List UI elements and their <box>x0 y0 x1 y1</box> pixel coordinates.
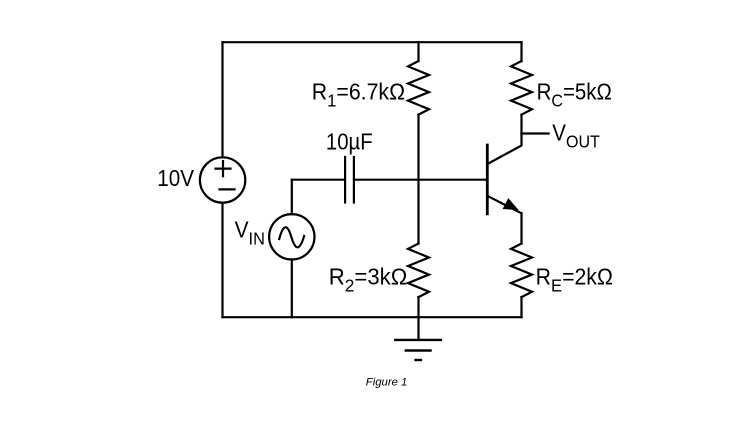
svg-text:10V: 10V <box>157 165 194 191</box>
wire left vertical lower <box>221 203 223 317</box>
resistor R1 <box>408 61 429 115</box>
svg-text:Figure 1: Figure 1 <box>366 377 408 389</box>
resistor R2 <box>408 244 429 298</box>
node VOUT stub <box>522 132 549 134</box>
svg-text:RE=2kΩ: RE=2kΩ <box>536 264 613 296</box>
svg-text:10µF: 10µF <box>326 128 373 154</box>
wire R1 bottom to R2 top (through base node) <box>417 115 419 244</box>
wire emitter diagonal <box>488 196 521 213</box>
wire RE bottom lead <box>520 297 522 317</box>
source V1 10V <box>200 157 245 202</box>
ground <box>395 340 441 360</box>
wire RC top lead <box>520 42 522 61</box>
wire R1 top lead <box>417 42 419 61</box>
wire RC bottom lead to Vout node <box>520 115 522 134</box>
wire base <box>354 179 486 181</box>
wire Vin top <box>291 180 293 215</box>
wire R2 bottom lead <box>417 297 419 317</box>
wire Vin bottom <box>291 260 293 318</box>
svg-text:R1=6.7kΩ: R1=6.7kΩ <box>312 79 405 111</box>
wire left vertical upper <box>221 42 223 157</box>
wire cap left to Vin branch <box>292 179 344 181</box>
source VIN <box>269 214 314 259</box>
resistor RC <box>511 61 532 115</box>
wire ground stem <box>417 317 419 340</box>
svg-text:RC=5kΩ: RC=5kΩ <box>537 78 612 110</box>
wire emitter vertical <box>520 213 522 243</box>
svg-text:VOUT: VOUT <box>552 119 600 151</box>
svg-text:VIN: VIN <box>235 217 265 249</box>
svg-text:R2=3kΩ: R2=3kΩ <box>329 264 407 295</box>
wire top rail <box>223 41 522 43</box>
wire bottom rail <box>223 316 522 318</box>
transistor Q1 base bar <box>486 145 489 214</box>
wire collector <box>488 134 521 164</box>
emitter arrow <box>503 199 517 210</box>
capacitor C1 10uF plates <box>345 157 354 203</box>
resistor RE <box>511 244 532 298</box>
